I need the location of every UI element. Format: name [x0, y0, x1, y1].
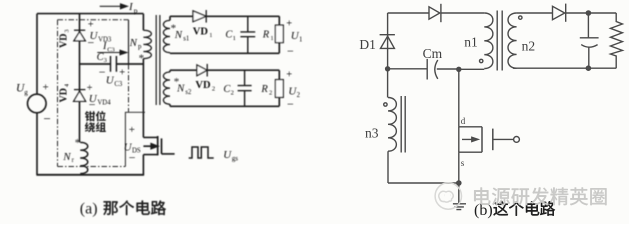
svg-text:2: 2: [231, 89, 234, 96]
svg-text:VD: VD: [59, 88, 70, 102]
wire: top rail: [37, 13, 143, 15]
polarity dot of n1: [480, 59, 483, 62]
diode VD4: [74, 90, 86, 102]
diode VD1: [193, 10, 206, 23]
svg-text:p: p: [138, 43, 142, 50]
label VD3 (rotated): [59, 29, 71, 48]
svg-text:+: +: [119, 68, 125, 79]
svg-text:C3: C3: [114, 81, 123, 88]
svg-text:VD: VD: [59, 34, 70, 48]
capacitor Cm: [427, 59, 438, 80]
resistor R2: [275, 80, 283, 98]
svg-text:+: +: [286, 18, 292, 29]
svg-text:2: 2: [212, 85, 215, 92]
svg-text:−: −: [89, 98, 96, 112]
svg-text:*: *: [75, 137, 81, 149]
current arrow Ip: [100, 4, 128, 9]
resistor R1: [275, 25, 283, 42]
svg-text:1: 1: [299, 36, 302, 43]
wire: output loop 1: [170, 16, 279, 53]
node junction source-ground: [457, 181, 461, 185]
resistor load (zigzag): [611, 13, 623, 68]
label VD4 (rotated): [59, 84, 71, 103]
capacitor C3: [111, 56, 117, 72]
svg-text:*: *: [139, 53, 145, 65]
svg-text:−: −: [99, 65, 106, 79]
svg-text:−: −: [44, 111, 51, 126]
svg-text:R: R: [260, 84, 268, 95]
wire: drain vertical: [458, 69, 460, 127]
wire: C3 branch horizontal: [80, 63, 144, 65]
svg-text:r: r: [72, 157, 75, 164]
winding n1: [484, 13, 493, 69]
winding n2: [508, 13, 517, 68]
ground: [453, 183, 466, 210]
svg-text:g: g: [24, 88, 28, 96]
svg-text:1: 1: [270, 35, 273, 42]
wire: output bottom rail: [513, 67, 616, 69]
svg-text:s1: s1: [183, 35, 189, 42]
svg-text:−: −: [129, 151, 136, 165]
svg-text:1: 1: [209, 32, 212, 39]
svg-text:d: d: [461, 116, 466, 126]
winding Ns1 secondary 1: [163, 20, 170, 52]
svg-text:VD4: VD4: [97, 99, 111, 106]
wire: top rail left segment: [388, 12, 485, 14]
current arrow IC3 with label: [97, 50, 127, 55]
svg-text:s: s: [461, 158, 465, 168]
wire: bottom rail: [36, 174, 144, 176]
svg-text:n1: n1: [464, 34, 478, 49]
node junction output cap top: [586, 11, 590, 15]
svg-text:VD: VD: [195, 80, 211, 91]
svg-text:n3: n3: [365, 125, 379, 140]
node junction output cap bottom: [586, 66, 590, 70]
polarity dot of n3: [384, 103, 387, 106]
svg-text:N: N: [174, 29, 183, 41]
svg-text:3: 3: [104, 57, 107, 64]
svg-text:p: p: [134, 6, 138, 15]
diode D1: [380, 13, 395, 69]
wire: input loop left rail with source gap: [36, 14, 38, 175]
svg-text:s2: s2: [185, 89, 192, 96]
svg-text:1: 1: [233, 35, 236, 42]
capacitor C1: [240, 16, 255, 53]
svg-text:2: 2: [297, 92, 301, 99]
snubber boundary box (dash-dot): [58, 20, 129, 167]
voltage source Ug: [28, 94, 47, 113]
label clamp winding text line1: [85, 111, 95, 121]
svg-text:−: −: [88, 36, 95, 50]
wire: bottom rail b: [388, 151, 459, 183]
core of n3: [401, 96, 405, 153]
gate terminal circle: [514, 137, 520, 143]
wire: drain vertical from top corner through Np: [142, 14, 144, 138]
svg-text:(a): (a): [80, 201, 98, 218]
capacitor output filter: [580, 13, 599, 68]
winding Ns2 secondary 2: [163, 72, 170, 104]
label clamp winding text line2: [85, 122, 95, 132]
node junction Cm-n1-drain: [457, 67, 461, 71]
svg-text:N: N: [176, 82, 185, 94]
svg-text:gs: gs: [232, 155, 239, 163]
svg-text:3: 3: [64, 29, 71, 32]
svg-text:+: +: [43, 82, 49, 94]
svg-text:n2: n2: [522, 38, 536, 53]
svg-text:D1: D1: [359, 37, 376, 52]
svg-text:N: N: [62, 151, 71, 163]
wire: snubber right vertical (C3 node to top edge): [128, 20, 130, 64]
gate waveform Ugs square wave: [189, 147, 214, 158]
transformer core T2: [497, 11, 502, 71]
svg-text:Cm: Cm: [423, 46, 443, 61]
voltage bracket UDS: [125, 112, 145, 166]
svg-text:VD: VD: [193, 27, 209, 38]
wire: n1 bottom connection: [459, 68, 485, 70]
wire: output loop 2: [170, 70, 279, 106]
svg-text:2: 2: [269, 89, 272, 96]
watermark logo circle: [435, 183, 461, 209]
polarity dot of n2: [519, 16, 522, 19]
wire: source to bottom: [458, 152, 460, 183]
svg-text:−: −: [287, 44, 294, 58]
winding n3 aux: [387, 69, 389, 98]
svg-text:R: R: [262, 30, 270, 41]
winding Nr (clamp winding): [80, 142, 88, 173]
svg-text:4: 4: [64, 84, 71, 87]
svg-text:−: −: [287, 97, 294, 111]
wire: n2 to output diode: [517, 12, 617, 14]
svg-text:C3: C3: [107, 46, 115, 53]
diode output rectifier (top right): [553, 4, 566, 22]
node junction D1-Cm-n3: [386, 67, 390, 71]
diode input rectifier (top left): [429, 4, 441, 22]
svg-text:+: +: [286, 70, 292, 81]
diode VD2: [197, 64, 207, 77]
watermark text: [474, 188, 490, 205]
svg-text:N: N: [129, 37, 138, 49]
diode VD3: [74, 30, 85, 41]
capacitor C2: [238, 70, 252, 106]
transformer core T1: [156, 15, 160, 105]
winding Np primary: [143, 30, 151, 58]
transistor Q2 MOSFET: [459, 127, 514, 152]
wire: Cm branch: [388, 68, 459, 70]
svg-text:+: +: [129, 124, 135, 136]
transistor Q1 MOSFET switch: [143, 136, 174, 175]
wire: VD3/VD4 branch vertical: [79, 14, 81, 143]
